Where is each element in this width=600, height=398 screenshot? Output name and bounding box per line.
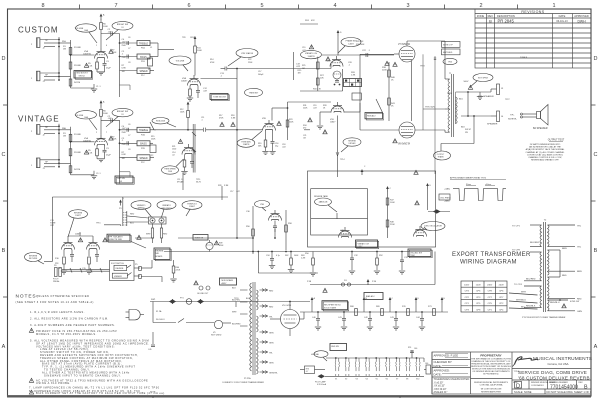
svg-text:C40: C40 [312, 317, 317, 319]
svg-text:RED: RED [269, 291, 274, 293]
svg-text:R14: R14 [210, 59, 213, 61]
svg-text:R8A: R8A [62, 127, 66, 130]
svg-text:T2: T2 [544, 220, 547, 222]
svg-text:DATE: DATE [559, 14, 566, 18]
svg-text:P2: P2 [151, 155, 153, 157]
svg-text:D: D [418, 298, 420, 300]
svg-text:RED: RED [163, 234, 168, 236]
svg-text:D: D [594, 56, 598, 62]
svg-text:TP15: TP15 [96, 223, 101, 225]
svg-text:100V: 100V [464, 285, 470, 287]
svg-text:V5: V5 [376, 379, 378, 381]
svg-text:MOD BOARD: MOD BOARD [222, 279, 234, 282]
svg-text:D: D [430, 185, 432, 187]
svg-text:RED: RED [269, 307, 274, 309]
svg-text:1K: 1K [391, 79, 394, 81]
svg-text:1: 1 [96, 45, 97, 47]
svg-text:YEL: YEL [269, 353, 274, 355]
svg-text:30ms: 30ms [466, 184, 471, 186]
svg-text:VIBRATO: VIBRATO [114, 275, 123, 278]
svg-text:470K: 470K [219, 117, 224, 119]
svg-text:C19: C19 [302, 47, 305, 49]
svg-text:-4dBu: -4dBu [444, 201, 450, 203]
svg-text:RECTIFIER SW S4: RECTIFIER SW S4 [324, 305, 340, 307]
svg-text:TRIM: TRIM [410, 255, 415, 257]
svg-text:.047: .047 [236, 191, 240, 193]
svg-text:8: 8 [41, 3, 44, 9]
svg-text:IS PROHIBITED.: IS PROHIBITED. [483, 374, 499, 376]
svg-text:SOLID STATE: SOLID STATE [324, 307, 337, 310]
svg-text:.047: .047 [313, 107, 317, 109]
svg-text:820K: 820K [219, 245, 224, 247]
svg-text:NOTE:: NOTE: [150, 392, 156, 394]
svg-text:V6: V6 [386, 379, 388, 381]
svg-text:V2: V2 [345, 379, 347, 381]
svg-text:BLK: BLK [232, 288, 236, 290]
svg-text:SHEET 1 OF 3: SHEET 1 OF 3 [574, 390, 592, 394]
svg-text:A: A [103, 14, 105, 17]
svg-text:V4B: V4B [340, 230, 344, 232]
svg-text:OSC FREQ: OSC FREQ [440, 198, 451, 200]
svg-text:R28: R28 [218, 185, 221, 187]
svg-text:1K: 1K [391, 105, 394, 107]
svg-text:APPROXIMATE WAVEFORM AT TP26: APPROXIMATE WAVEFORM AT TP26 [450, 177, 487, 180]
svg-text:CORONA DIV.: CORONA DIV. [531, 384, 544, 387]
svg-text:TIP+: TIP+ [510, 115, 515, 117]
svg-text:NRL: NRL [156, 253, 160, 255]
svg-text:C17: C17 [258, 71, 261, 73]
svg-text:C30: C30 [246, 211, 251, 213]
svg-text:DWH: DWH [577, 19, 586, 23]
svg-text:1: 1 [31, 78, 33, 80]
svg-text:TRANS: TRANS [437, 156, 444, 159]
svg-text:TP27: TP27 [505, 99, 510, 101]
svg-text:25μ: 25μ [275, 145, 278, 147]
svg-text:RED: RED [130, 214, 135, 216]
svg-text:Corona, CA USA: Corona, CA USA [548, 362, 569, 366]
svg-text:P1A: P1A [141, 47, 145, 50]
svg-text:BLU: BLU [521, 307, 526, 309]
svg-text:25μF: 25μF [106, 68, 112, 70]
svg-text:R62: R62 [285, 255, 288, 257]
svg-text:USING A X10 PROBE.: USING A X10 PROBE. [36, 381, 71, 385]
svg-text:1MA: 1MA [84, 29, 88, 32]
svg-text:P.1E: P.1E [372, 281, 377, 283]
svg-text:SLEEVE-: SLEEVE- [508, 119, 517, 121]
svg-text:TP26: TP26 [448, 61, 452, 63]
svg-text:V10: V10 [416, 379, 419, 381]
svg-text:C7: C7 [128, 135, 130, 137]
svg-text:VOLUME: VOLUME [75, 28, 84, 30]
svg-text:.022: .022 [296, 66, 301, 68]
svg-text:SW1: SW1 [151, 299, 156, 301]
svg-text:R70: R70 [402, 306, 407, 308]
svg-text:BRN: BRN [577, 271, 582, 273]
svg-text:V10 GZ34: V10 GZ34 [282, 305, 292, 307]
svg-text:C9 .1: C9 .1 [96, 173, 101, 175]
svg-text:D: D [2, 56, 6, 62]
svg-text:CP3: CP3 [465, 309, 470, 311]
svg-text:250K: 250K [151, 138, 156, 140]
svg-text:TIMER NR: TIMER NR [195, 237, 204, 239]
svg-text:REVERB AMPLIFIER: REVERB AMPLIFIER [481, 391, 501, 394]
svg-text:SPEED: SPEED [138, 208, 145, 210]
svg-text:C46: C46 [425, 363, 428, 365]
svg-text:3. A-DIGIT NUMBERS ARE HEADER: 3. A-DIGIT NUMBERS ARE HEADER PART NUMBE… [30, 323, 115, 327]
svg-text:C: C [364, 166, 366, 168]
svg-text:WHT: WHT [232, 312, 237, 314]
svg-text:R3 68K: R3 68K [74, 65, 82, 67]
svg-text:CUT: CUT [50, 225, 55, 227]
svg-text:C44: C44 [416, 317, 421, 319]
svg-text:1M: 1M [63, 49, 66, 51]
svg-text:B: B [594, 248, 598, 254]
svg-text:+4dBu: +4dBu [444, 189, 451, 191]
svg-text:BOARD: BOARD [156, 255, 163, 258]
svg-text:12AT7: 12AT7 [75, 233, 82, 236]
svg-text:C8: C8 [128, 149, 130, 151]
svg-text:PROPRIETARY: PROPRIETARY [480, 354, 501, 358]
svg-text:PT-P1B EXPORT POWER TRANSFOR: PT-P1B EXPORT POWER TRANSFORMER [522, 316, 566, 319]
svg-text:V7 6V6GTA: V7 6V6GTA [398, 43, 411, 46]
svg-text:BLU/RED: BLU/RED [526, 279, 536, 281]
svg-text:REVERB: REVERB [156, 251, 165, 253]
svg-text:DATE:: DATE: [434, 372, 442, 376]
svg-text:1. R,L,C,V,R AND LENGTH-SIZES: 1. R,L,C,V,R AND LENGTH-SIZES. [30, 310, 85, 314]
svg-text:TREM INT: TREM INT [249, 92, 259, 94]
svg-text:SW S2: SW S2 [79, 76, 86, 78]
svg-text:CP8: CP8 [476, 309, 481, 311]
svg-text:J1: J1 [43, 81, 46, 83]
svg-text:VIBRATO: VIBRATO [162, 204, 171, 207]
svg-text:SERVICE DIAG, COMB DRIVE: SERVICE DIAG, COMB DRIVE [518, 370, 587, 375]
svg-text:CP7: CP7 [488, 297, 493, 299]
svg-text:R29 82K: R29 82K [356, 41, 364, 43]
svg-text:.1: .1 [201, 119, 203, 121]
svg-text:DATE:: DATE: [434, 364, 442, 368]
svg-text:WHT: WHT [146, 234, 151, 236]
svg-text:VOLUME: VOLUME [176, 60, 185, 62]
svg-text:.1: .1 [348, 65, 351, 67]
svg-text:APPROVED: APPROVED [574, 14, 589, 18]
svg-text:PRI: PRI [55, 263, 59, 265]
svg-text:AN 8Ω RESISTIVE LOAD AT THE: AN 8Ω RESISTIVE LOAD AT THE [529, 146, 561, 149]
svg-text:APPROVED: F.LEE: APPROVED: F.LEE [434, 354, 459, 358]
svg-text:500K: 500K [294, 255, 299, 257]
svg-text:R68: R68 [350, 306, 355, 308]
svg-text:10K: 10K [122, 158, 126, 160]
svg-text:MATCHED: MATCHED [443, 51, 453, 54]
svg-text:TREBLE: TREBLE [139, 42, 149, 45]
svg-text:R56: R56 [246, 226, 251, 228]
svg-text:RETURN: RETURN [29, 258, 38, 260]
svg-text:ASSY: ASSY [222, 282, 228, 285]
svg-text:2: 2 [479, 3, 482, 9]
svg-text:RED: RED [562, 275, 567, 277]
svg-text:TP8: TP8 [182, 37, 185, 39]
svg-text:CP8: CP8 [488, 291, 493, 293]
svg-text:B: B [2, 248, 6, 254]
svg-text:100K: 100K [180, 111, 185, 113]
svg-text:12AT7: 12AT7 [330, 120, 335, 123]
svg-text:CHANNEL CONTROLS FULL CCW,: CHANNEL CONTROLS FULL CCW, [528, 156, 562, 159]
svg-text:.022: .022 [302, 50, 306, 52]
svg-text:CP4: CP4 [465, 291, 470, 293]
svg-text:R25: R25 [302, 65, 305, 67]
svg-text:2. ALL RESISTORS ARE 1/2W 5%: 2. ALL RESISTORS ARE 1/2W 5% CARBON FILM… [30, 317, 109, 321]
svg-text:5: 5 [260, 3, 263, 9]
svg-text:10Hz OSCILLATOR: 10Hz OSCILLATOR [424, 225, 442, 228]
svg-text:7701454000: 7701454000 [550, 385, 578, 391]
svg-text:.022: .022 [108, 31, 113, 33]
svg-text:.02: .02 [172, 154, 175, 156]
svg-text:C33: C33 [404, 257, 409, 259]
svg-text:V8: V8 [406, 379, 408, 381]
svg-text:250K: 250K [122, 144, 127, 146]
svg-text:BIAS ADJ: BIAS ADJ [366, 295, 374, 298]
svg-text:MYLAR: MYLAR [177, 180, 184, 183]
svg-text:.1: .1 [220, 75, 223, 77]
svg-text:GRN: GRN [269, 343, 274, 345]
svg-text:EXT SPKR: EXT SPKR [478, 77, 488, 79]
svg-text:4.7μ: 4.7μ [276, 255, 280, 257]
svg-text:R1A: R1A [62, 40, 66, 43]
svg-text:TIP: TIP [45, 40, 49, 42]
svg-text:≈60ms: ≈60ms [485, 183, 491, 186]
svg-text:V2B 12AX7A: V2B 12AX7A [241, 52, 253, 55]
svg-text:BRIGHT SW: BRIGHT SW [117, 24, 128, 26]
svg-text:TONE BOOST: TONE BOOST [213, 97, 227, 99]
svg-text:4: 4 [333, 3, 336, 9]
svg-text:SPEED: SPEED [139, 70, 147, 73]
svg-text:1M: 1M [298, 73, 301, 75]
svg-text:220K: 220K [176, 270, 181, 272]
svg-text:2: 2 [31, 44, 33, 46]
svg-text:ANGLES ±1°: ANGLES ±1° [434, 391, 448, 394]
svg-text:WIRING DIAGRAM: WIRING DIAGRAM [460, 260, 517, 266]
svg-text:A: A [314, 297, 316, 300]
svg-text:REVERB: REVERB [116, 268, 125, 270]
svg-text:VINTAGE: VINTAGE [18, 115, 60, 124]
svg-text:ZONE: ZONE [477, 14, 484, 18]
svg-text:12AX7B: 12AX7B [308, 55, 316, 58]
svg-text:BLU: BLU [130, 223, 134, 225]
svg-text:5W: 5W [465, 132, 468, 134]
svg-text:R58: R58 [288, 223, 293, 225]
svg-text:100K: 100K [390, 202, 395, 204]
svg-text:R4 1M: R4 1M [74, 82, 80, 84]
svg-text:6: 6 [187, 3, 190, 9]
svg-text:'68 CUSTOM DELUXE REVERB: '68 CUSTOM DELUXE REVERB [518, 375, 590, 380]
svg-text:R74: R74 [408, 347, 411, 349]
svg-text:R24: R24 [305, 20, 310, 22]
svg-text:220K: 220K [248, 62, 253, 64]
svg-text:C45: C45 [148, 349, 151, 351]
svg-text:C: C [390, 188, 392, 190]
svg-text:EFF. 750K ASSY: EFF. 750K ASSY [109, 236, 124, 239]
svg-text:C: C [392, 298, 394, 300]
svg-text:D3: D3 [344, 280, 347, 282]
svg-text:100K: 100K [112, 52, 117, 54]
svg-text:P2B: P2B [141, 148, 145, 150]
svg-text:EXPORT TRANSFORMER: EXPORT TRANSFORMER [452, 252, 531, 258]
svg-text:(SEE SHEET 3 FOR NOTES 10-12 A: (SEE SHEET 3 FOR NOTES 10-12 AND TABLE-A… [16, 300, 94, 304]
svg-text:L1: L1 [150, 47, 153, 49]
svg-text:56K: 56K [258, 145, 262, 147]
svg-text:RED/BLU: RED/BLU [550, 302, 560, 304]
svg-text:250K: 250K [168, 171, 173, 173]
svg-text:C46: C46 [414, 348, 417, 350]
svg-text:120V: 120V [476, 285, 482, 287]
svg-text:500pF: 500pF [258, 74, 264, 76]
svg-text:PR 2845: PR 2845 [498, 18, 515, 23]
svg-text:J4: J4 [501, 116, 504, 118]
svg-text:BASS: BASS [140, 56, 147, 59]
svg-text:AT(A) FROM INPUT JACK THE NORM: AT(A) FROM INPUT JACK THE NORMAL [526, 148, 566, 151]
svg-text:P1C: P1C [141, 75, 145, 77]
svg-text:PT-P1A: PT-P1A [244, 377, 251, 380]
svg-text:R52: R52 [379, 255, 384, 257]
svg-text:SINEWAVE INPUT TO VIBRATO CHAN: SINEWAVE INPUT TO VIBRATO CHANNEL ONLY. [44, 373, 121, 377]
svg-text:P2A: P2A [141, 133, 145, 136]
svg-text:VIBRATO CH: VIBRATO CH [305, 52, 318, 55]
svg-text:6.8K: 6.8K [122, 67, 127, 69]
svg-text:220K: 220K [382, 69, 387, 71]
svg-text:C8: C8 [128, 62, 130, 64]
svg-text:V1: V1 [335, 379, 337, 381]
svg-text:J2: J2 [43, 48, 46, 50]
svg-text:1K: 1K [323, 107, 326, 109]
svg-text:R71: R71 [428, 306, 433, 308]
svg-text:C41: C41 [338, 317, 343, 319]
svg-text:V4: V4 [366, 379, 368, 381]
svg-text:CP3: CP3 [476, 297, 481, 299]
svg-text:C42: C42 [364, 317, 369, 319]
svg-text:YEL: YEL [269, 317, 274, 319]
svg-text:SPEAKER: SPEAKER [487, 123, 498, 126]
svg-text:10K: 10K [320, 78, 324, 80]
svg-text:P6: P6 [54, 265, 57, 267]
svg-text:BIAS CURRENT SET AT THE FACTOR: BIAS CURRENT SET AT THE FACTORY TO 24mA … [36, 391, 166, 395]
svg-text:C: C [594, 152, 598, 158]
svg-text:C6: C6 [128, 37, 130, 39]
svg-text:C3: C3 [106, 61, 110, 63]
svg-text:BLK/RED: BLK/RED [232, 324, 241, 326]
svg-text:CP6: CP6 [499, 291, 504, 293]
svg-text:B: B [584, 385, 588, 391]
svg-text:GRN: GRN [447, 93, 452, 95]
svg-text:PT1: PT1 [180, 298, 185, 300]
svg-text:R1 68K: R1 68K [74, 47, 82, 49]
svg-text:VIBRATO: VIBRATO [137, 204, 146, 207]
svg-text:ZONE B: ZONE B [520, 57, 528, 59]
svg-text:TP23: TP23 [420, 66, 425, 68]
svg-text:7: 7 [114, 3, 117, 9]
svg-text:REV: REV [579, 382, 584, 384]
svg-text:47K: 47K [311, 20, 315, 22]
svg-text:CHANNEL AT (1), ALL OTHER CHAN: CHANNEL AT (1), ALL OTHER CHANNEL [526, 151, 566, 154]
svg-text:CP7: CP7 [499, 297, 504, 299]
svg-text:.022: .022 [282, 146, 286, 148]
svg-text:TP25 562V: TP25 562V [425, 107, 436, 109]
svg-text:V7: V7 [396, 379, 398, 381]
svg-text:1.5K: 1.5K [88, 66, 93, 68]
svg-text:FAT SW: FAT SW [118, 177, 125, 180]
svg-text:20 WATTS MINIMUM RMS INTO: 20 WATTS MINIMUM RMS INTO [530, 143, 561, 146]
svg-text:GRN: GRN [269, 363, 274, 365]
svg-text:C1 .1: C1 .1 [96, 86, 101, 88]
svg-text:250K: 250K [122, 57, 127, 59]
svg-text:6.3V 40mA: 6.3V 40mA [317, 383, 327, 386]
svg-text:12AX7: 12AX7 [181, 80, 188, 83]
svg-text:TP14: TP14 [340, 159, 345, 161]
svg-text:R50: R50 [305, 253, 310, 255]
svg-text:YEL: YEL [577, 247, 582, 249]
svg-text:P2C: P2C [141, 162, 145, 164]
svg-text:7. LAMP IMPEDANCES (IN OHMS): 7. LAMP IMPEDANCES (IN OHMS) ML-T2 YN L1… [29, 386, 160, 390]
svg-text:192V: 192V [190, 37, 195, 39]
svg-text:C7: C7 [128, 48, 130, 50]
svg-text:6: 6 [106, 45, 107, 47]
svg-text:R15A 250K: R15A 250K [156, 120, 166, 123]
svg-text:CP6: CP6 [476, 291, 481, 293]
svg-text:TO CP1: TO CP1 [512, 226, 521, 228]
svg-text:BRN: BRN [562, 248, 567, 250]
svg-text:220K: 220K [390, 224, 395, 226]
svg-text:BLK/RED: BLK/RED [530, 242, 540, 244]
svg-text:1.8K: 1.8K [351, 75, 356, 77]
svg-text:12AX7: 12AX7 [189, 205, 196, 208]
svg-text:A: A [2, 344, 6, 350]
svg-text:560V: 560V [464, 81, 469, 83]
svg-text:OUTPUT TEST: OUTPUT TEST [548, 139, 565, 142]
svg-text:C14: C14 [57, 268, 62, 270]
svg-text:36.2V: 36.2V [196, 181, 202, 183]
svg-text:YEL: YEL [577, 226, 582, 228]
svg-text:TP31: TP31 [234, 298, 239, 300]
svg-text:2: 2 [96, 132, 97, 134]
svg-text:1: 1 [552, 3, 555, 9]
svg-text:C32: C32 [354, 255, 359, 257]
svg-text:C17: C17 [230, 191, 233, 193]
svg-text:4.7: 4.7 [306, 371, 309, 373]
svg-text:NOTE 5 TP: NOTE 5 TP [443, 45, 453, 47]
svg-text:CP1: CP1 [488, 309, 493, 311]
svg-text:EXT. SPEAKER: EXT. SPEAKER [478, 95, 494, 98]
svg-text:470: 470 [303, 127, 306, 129]
svg-text:INTENSITY: INTENSITY [161, 208, 172, 210]
svg-text:220K: 220K [289, 121, 294, 123]
svg-text:CP5: CP5 [488, 303, 493, 305]
svg-text:HUM BAL: HUM BAL [311, 353, 319, 356]
svg-text:BLU: BLU [459, 99, 464, 101]
svg-text:R69: R69 [376, 306, 381, 308]
svg-text:A: A [594, 344, 598, 350]
svg-text:R22: R22 [248, 59, 251, 61]
svg-text:CORONA, CALIFORNIA: CORONA, CALIFORNIA [480, 384, 503, 387]
svg-text:CP2: CP2 [499, 303, 504, 305]
svg-text:SCALE: NONE: SCALE: NONE [514, 390, 532, 394]
svg-text:.1: .1 [368, 50, 371, 52]
svg-text:220K: 220K [303, 107, 308, 109]
svg-text:SLO-BLO: SLO-BLO [156, 319, 165, 321]
svg-text:D: D [516, 384, 520, 390]
svg-text:12AT7: 12AT7 [75, 214, 82, 217]
svg-text:100K: 100K [197, 50, 202, 52]
svg-text:TO CP4: TO CP4 [514, 284, 523, 286]
svg-text:P1B: P1B [141, 61, 145, 63]
svg-text:R16: R16 [55, 258, 60, 260]
